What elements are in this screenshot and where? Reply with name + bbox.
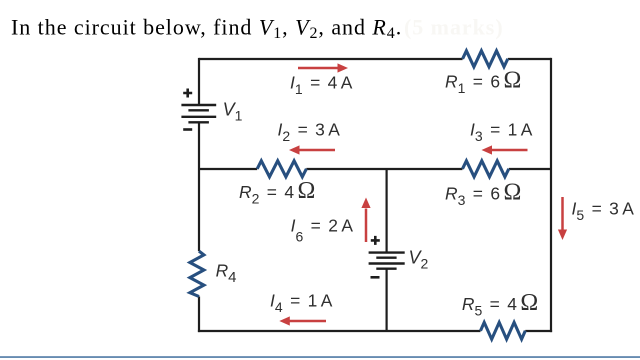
label R3 = 6 ohm [445, 180, 521, 209]
current arrow I4 [279, 316, 326, 325]
resistor R5 [481, 322, 526, 339]
current arrow I3 [482, 145, 528, 154]
label I3 = 1 A [470, 120, 533, 145]
svg-text:V2: V2 [409, 248, 429, 272]
wire bottom-left segment [198, 330, 481, 332]
svg-text:R4: R4 [216, 260, 237, 286]
battery V2 plus sign [371, 236, 380, 245]
svg-text:I3 = 1A: I3 = 1A [470, 120, 533, 145]
current arrow I1 [298, 63, 348, 72]
wire top-left segment [199, 58, 463, 60]
svg-text:I2 = 3A: I2 = 3A [278, 120, 341, 145]
svg-text:R1 = 6Ω: R1 = 6Ω [445, 67, 521, 96]
title [11, 15, 402, 43]
current arrow I5 [558, 197, 567, 240]
wire left middle (battery V1 to R4) [198, 123, 200, 252]
resistor R4 [190, 251, 204, 296]
resistor R1 [463, 51, 508, 67]
battery V2 [369, 253, 405, 269]
label I6 = 2 A [291, 216, 354, 245]
current arrow I6 [361, 198, 370, 243]
resistor R2 [257, 161, 306, 177]
svg-text:In the circuit below, find V1,: In the circuit below, find V1, V2, and R… [11, 15, 402, 43]
bottom divider line [0, 356, 640, 358]
wire middle horizontal center (R2 to R3) [306, 168, 462, 170]
svg-text:(5 marks): (5 marks) [404, 15, 504, 40]
wire middle vertical lower (battery V2 to bottom) [386, 269, 388, 332]
label R1 = 6 ohm [445, 67, 521, 96]
svg-text:R2 = 4Ω: R2 = 4Ω [239, 178, 315, 207]
label I1 = 4 A [290, 73, 353, 98]
marks note [404, 15, 504, 40]
label R5 = 4 ohm [462, 290, 538, 319]
battery V1 [181, 105, 216, 122]
wire middle horizontal left (node to R2) [199, 168, 257, 170]
label I4 = 1 A [270, 291, 333, 316]
wire right side [550, 58, 552, 332]
battery V2 minus sign [371, 276, 380, 279]
wire bottom-right segment [525, 330, 552, 332]
wire middle vertical upper (node to battery V2) [386, 169, 388, 253]
label I5 = 3 A [572, 199, 635, 224]
label V2 [409, 248, 429, 272]
svg-text:I5 = 3A: I5 = 3A [572, 199, 635, 224]
label V1 [223, 100, 243, 124]
label I2 = 3 A [278, 120, 341, 145]
resistor R3 [463, 161, 509, 177]
svg-text:R5 = 4Ω: R5 = 4Ω [462, 290, 538, 319]
wire left lower (R4 to bottom) [198, 297, 200, 333]
battery V1 minus sign [183, 128, 192, 131]
wire left upper (top to battery V1) [198, 58, 200, 105]
svg-text:I1 = 4A: I1 = 4A [290, 73, 353, 98]
wire top-right segment [508, 58, 551, 60]
svg-text:V1: V1 [223, 100, 243, 124]
wire middle horizontal right (R3 to right side) [509, 168, 551, 170]
svg-text:R3 = 6Ω: R3 = 6Ω [445, 180, 521, 209]
label R2 = 4 ohm [239, 178, 315, 207]
label R4 [216, 260, 237, 286]
svg-text:I6 = 2A: I6 = 2A [291, 216, 354, 245]
battery V1 plus sign [183, 89, 192, 98]
svg-text:I4 = 1A: I4 = 1A [270, 291, 333, 316]
current arrow I2 [289, 145, 335, 154]
